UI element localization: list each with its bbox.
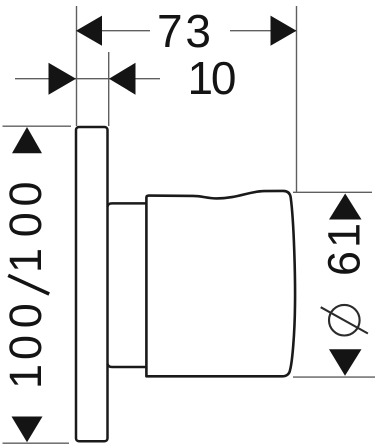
arrowhead diameter 61 up [329,194,362,220]
arrowhead 100/100 up [12,127,42,153]
dimension label 61 (rotated) [319,223,370,276]
svg-text:0: 0 [0,212,51,237]
handle grip outline [146,191,295,376]
svg-text:1: 1 [0,364,51,389]
dimension line 73 [76,30,150,32]
extension line handle front (x=296.5) [296,6,298,192]
extension line left (wall side, x=76) [76,6,78,126]
svg-text:10: 10 [188,52,237,104]
dimension label 100/100 (rotated) [0,181,51,389]
svg-text:0: 0 [0,181,51,206]
diameter symbol slash [321,307,368,333]
svg-text:1: 1 [0,248,51,273]
arrowhead 10 right [109,63,136,95]
arrowhead 100/100 down [12,417,43,443]
svg-text:0: 0 [0,303,51,328]
sleeve bottom edge [108,364,147,367]
arrowhead 73 left [76,16,102,46]
arrowhead 73 right [271,16,297,46]
extension line grip bottom right (horizontal) [293,376,375,378]
arrowhead diameter 61 down [329,349,362,376]
svg-text:1: 1 [319,223,370,248]
extension line plate bottom (horizontal) [3,442,70,444]
escutcheon plate (side view) [76,127,108,441]
diameter symbol circle [329,305,360,336]
extension line plate top (horizontal) [3,125,72,127]
svg-text:0: 0 [0,335,51,360]
svg-text:6: 6 [319,251,370,276]
dimension line 10 [15,78,160,80]
arrowhead 10 left [49,63,77,95]
extension line plate front (x=108.7) [108,52,110,126]
extension line grip top right (horizontal) [293,191,372,193]
slash of 100/100 [8,275,49,294]
sleeve top edge [108,203,147,206]
